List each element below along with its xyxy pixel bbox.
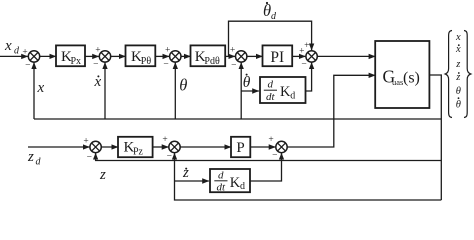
plus sign at S5 top bbox=[304, 41, 309, 51]
plus sign at S8 bbox=[268, 135, 273, 145]
svg-text:uas: uas bbox=[392, 77, 403, 87]
label z feedback bbox=[99, 167, 106, 183]
wire derivative block 2 to S8 bottom bbox=[250, 153, 282, 181]
wire S2 to K_Ptheta bbox=[111, 55, 126, 57]
svg-text:Px: Px bbox=[71, 56, 82, 67]
svg-text:−: − bbox=[93, 60, 98, 70]
wire x_d input bbox=[0, 55, 28, 57]
wire PI to S5 bbox=[292, 55, 305, 57]
svg-text:+: + bbox=[22, 47, 27, 57]
svg-text:−: − bbox=[25, 61, 30, 71]
label thetadot_d bbox=[263, 1, 277, 22]
wire S7 to P bbox=[180, 146, 231, 148]
minus sign at S3 bbox=[163, 60, 168, 70]
wire S4 to PI bbox=[247, 55, 263, 57]
summing junction S1 (x) bbox=[28, 51, 39, 62]
plant block G_uas(s) bbox=[375, 41, 429, 108]
wire z_d input bbox=[28, 146, 89, 148]
svg-text:d: d bbox=[268, 79, 274, 91]
plus sign at S5 left bbox=[299, 47, 304, 57]
wire z feedback to S6 bbox=[96, 153, 442, 160]
svg-text:+: + bbox=[304, 41, 309, 51]
minus sign at S4 bbox=[231, 60, 236, 70]
wire derivative block to S5 bottom bbox=[306, 63, 312, 92]
plus sign at S6 bbox=[83, 137, 88, 147]
svg-text:z: z bbox=[455, 72, 460, 83]
wire feedback bus bbox=[34, 118, 441, 120]
svg-text:z: z bbox=[455, 59, 460, 70]
wire x feedback riser to S1 bbox=[33, 63, 35, 120]
gain block K_Px bbox=[56, 45, 85, 66]
minus sign at S8 bbox=[272, 151, 277, 161]
svg-text:−: − bbox=[231, 60, 236, 70]
svg-text:dt: dt bbox=[217, 182, 227, 194]
wire K_Pz to S7 bbox=[153, 146, 169, 148]
label xdot feedback bbox=[94, 74, 102, 90]
wire S1 to K_Px bbox=[40, 55, 56, 57]
wire theta feedback riser to S3 bbox=[174, 63, 176, 120]
minus sign at S7 bbox=[167, 152, 172, 162]
wire thetadot_d feedforward to S5 top bbox=[229, 21, 312, 56]
minus sign at S6 bbox=[87, 153, 92, 163]
svg-text:−: − bbox=[301, 60, 306, 70]
svg-text:d: d bbox=[290, 90, 295, 101]
gain block K_Ptheta bbox=[126, 45, 156, 66]
svg-text:+: + bbox=[95, 46, 100, 56]
wire S5 to G_uas bbox=[317, 55, 375, 57]
wire K_Pdtheta to S4 bbox=[225, 55, 235, 57]
wire P to S8 bbox=[250, 146, 275, 148]
wire G_uas output and feedback vertical bbox=[429, 75, 441, 200]
wire xdot feedback riser to S2 bbox=[104, 63, 106, 120]
wire thetadot tap to derivative block bbox=[241, 90, 259, 92]
minus sign at S5 bbox=[301, 60, 306, 70]
svg-text:−: − bbox=[87, 153, 92, 163]
svg-text:d: d bbox=[218, 169, 224, 181]
svg-text:z: z bbox=[27, 149, 34, 165]
wire K_Ptheta to S3 bbox=[155, 55, 169, 57]
wire zdot feedback to S7 bbox=[175, 153, 442, 200]
wire S8 to G_uas second input bbox=[287, 75, 375, 147]
summing junction S3 (theta) bbox=[170, 51, 181, 62]
svg-text:θ: θ bbox=[456, 86, 461, 97]
label x_d bbox=[4, 38, 20, 56]
plus sign at S2 bbox=[95, 46, 100, 56]
label thetadot feedback bbox=[243, 74, 251, 91]
svg-text:x: x bbox=[4, 38, 12, 54]
svg-text:d: d bbox=[240, 181, 245, 192]
svg-text:z: z bbox=[99, 167, 106, 183]
svg-text:−: − bbox=[272, 151, 277, 161]
svg-text:+: + bbox=[230, 46, 235, 56]
svg-text:x: x bbox=[455, 44, 461, 55]
output state vector labels bbox=[455, 32, 461, 111]
summing junction S5 bbox=[306, 51, 317, 62]
svg-text:PI: PI bbox=[270, 49, 284, 66]
summing junction S2 (xdot) bbox=[99, 51, 110, 62]
label theta feedback bbox=[179, 76, 187, 95]
wire S3 to K_Pdtheta bbox=[181, 55, 191, 57]
svg-text:θ: θ bbox=[243, 74, 251, 91]
svg-text:Pθ: Pθ bbox=[141, 56, 152, 67]
svg-text:Pz: Pz bbox=[133, 147, 144, 158]
summing junction S6 (z) bbox=[90, 141, 101, 152]
svg-text:−: − bbox=[163, 60, 168, 70]
output vector right brace bbox=[464, 31, 471, 118]
wire zdot tap to derivative block 2 bbox=[175, 180, 209, 182]
gain block K_Pz bbox=[118, 137, 153, 158]
label x feedback bbox=[37, 80, 45, 96]
svg-text:dt: dt bbox=[266, 91, 276, 103]
derivative block d/dt K_d (attitude) bbox=[260, 77, 306, 103]
PI controller block bbox=[263, 45, 293, 66]
label zdot feedback bbox=[182, 165, 189, 181]
svg-text:+: + bbox=[268, 135, 273, 145]
svg-text:θ: θ bbox=[179, 76, 187, 95]
P controller block bbox=[231, 137, 250, 157]
svg-text:(s): (s) bbox=[403, 70, 420, 87]
summing junction S8 bbox=[276, 141, 287, 152]
summing junction S7 (zdot) bbox=[169, 141, 180, 152]
svg-text:x: x bbox=[37, 80, 45, 96]
minus sign at S2 bbox=[93, 60, 98, 70]
wire K_Px to S2 bbox=[85, 55, 99, 57]
svg-text:P: P bbox=[236, 140, 244, 156]
wire S6 to K_Pz bbox=[101, 146, 118, 148]
plus sign at S3 bbox=[165, 46, 170, 56]
gain block K_Pdtheta bbox=[191, 45, 226, 66]
summing junction S4 (thetadot) bbox=[236, 51, 247, 62]
svg-text:z: z bbox=[182, 165, 189, 181]
svg-text:+: + bbox=[162, 135, 167, 145]
derivative block d/dt K_d (altitude) bbox=[210, 169, 250, 194]
output vector left brace bbox=[445, 31, 452, 118]
svg-text:x: x bbox=[455, 32, 461, 43]
plus sign at S4 bbox=[230, 46, 235, 56]
svg-text:Pdθ: Pdθ bbox=[204, 56, 220, 67]
svg-text:+: + bbox=[83, 137, 88, 147]
minus sign at S1 bbox=[25, 61, 30, 71]
plus sign at S1 bbox=[22, 47, 27, 57]
svg-text:+: + bbox=[165, 46, 170, 56]
label z_d bbox=[27, 149, 42, 167]
wire thetadot feedback riser to S4 bbox=[240, 63, 242, 120]
svg-text:−: − bbox=[167, 152, 172, 162]
svg-text:θ: θ bbox=[456, 100, 461, 111]
plus sign at S7 bbox=[162, 135, 167, 145]
